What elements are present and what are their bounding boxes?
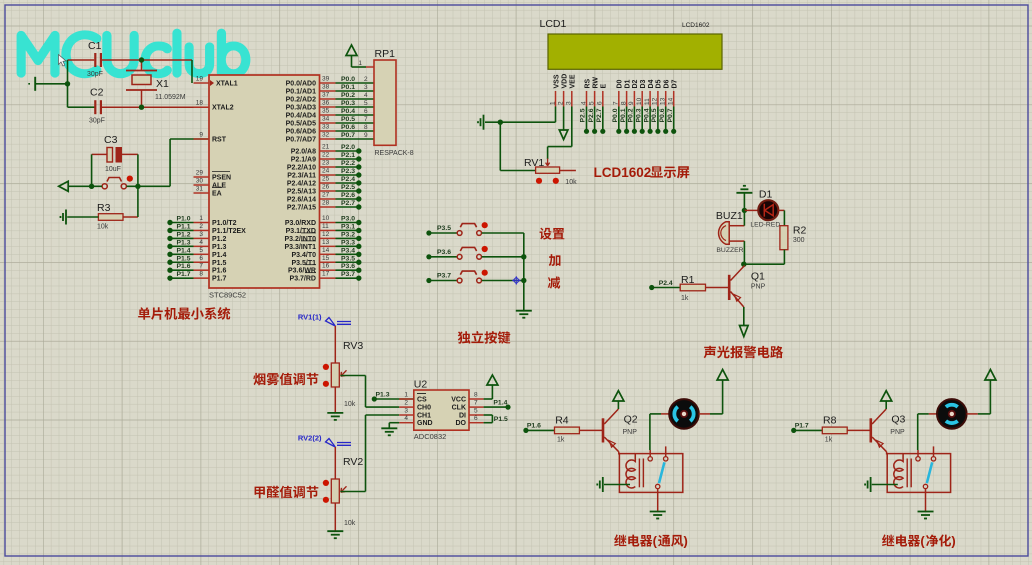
wire LCD net P2.5 — [586, 107, 588, 132]
node P1.6 — [523, 428, 528, 433]
pin P2.0 — [320, 150, 336, 152]
wire net P3.7 — [336, 277, 359, 279]
svg-text:(: ( — [920, 534, 925, 549]
mouse cursor — [59, 55, 67, 67]
wire LCD VSS to ground — [555, 107, 557, 123]
svg-text:26: 26 — [322, 184, 330, 191]
pin CLK — [469, 406, 484, 408]
node P1.3 — [372, 396, 377, 401]
svg-text:P3.7: P3.7 — [437, 273, 451, 280]
svg-text:4: 4 — [580, 101, 587, 105]
svg-text:11.0592M: 11.0592M — [155, 94, 186, 101]
wire net P2.5 — [336, 190, 359, 192]
svg-text:LED-RED: LED-RED — [750, 222, 780, 229]
wire LCD net P0.2 — [633, 107, 635, 132]
buzzer BUZ1 — [719, 222, 730, 245]
RV2 adjust dots — [323, 480, 329, 486]
resistor R3 — [98, 214, 123, 221]
LED D1 — [744, 209, 758, 211]
svg-text:P2.5: P2.5 — [580, 108, 587, 122]
power arrow down Q1 — [740, 326, 749, 337]
svg-text:P1.0/T2: P1.0/T2 — [212, 220, 237, 227]
wire net P1.4 — [170, 253, 194, 255]
ADC U2 body — [414, 390, 469, 430]
wire LCD net P0.0 — [618, 107, 620, 132]
pin CH1 — [399, 414, 414, 416]
svg-text:11: 11 — [322, 223, 329, 230]
pin P3.2 — [320, 237, 336, 239]
pin P1.6 — [194, 269, 210, 271]
svg-text:D7: D7 — [672, 79, 679, 88]
wire left rail — [68, 59, 95, 61]
svg-text:P1.6: P1.6 — [527, 423, 541, 430]
svg-text:VEE: VEE — [570, 74, 577, 88]
node LCD net P0.7 — [671, 129, 676, 134]
svg-text:4: 4 — [404, 415, 408, 422]
wire GND — [389, 422, 399, 424]
svg-text:P2.4: P2.4 — [659, 280, 673, 287]
svg-text:2: 2 — [404, 400, 408, 407]
wire C3 loop — [92, 153, 107, 155]
wire coil left ground — [604, 484, 630, 486]
svg-text:27: 27 — [322, 192, 330, 199]
svg-text:7: 7 — [364, 116, 368, 123]
svg-text:14: 14 — [668, 97, 675, 105]
svg-text:PNP: PNP — [623, 429, 638, 436]
svg-text:10k: 10k — [344, 401, 356, 408]
svg-text:RV1: RV1 — [524, 157, 544, 169]
pin PSEN — [194, 176, 210, 178]
node P1.6 — [167, 268, 172, 273]
wire LCD net P0.3 — [641, 107, 643, 132]
svg-text:D3: D3 — [640, 79, 647, 88]
node P2.6 — [356, 196, 361, 201]
wire Q1 emitter down — [743, 307, 745, 326]
wire P0.6 to RP1 — [336, 130, 375, 132]
relay coil — [626, 454, 635, 488]
svg-text:P1.4: P1.4 — [493, 400, 507, 407]
node X1 top — [139, 57, 144, 62]
pin P1.1 — [194, 229, 210, 231]
svg-text:14: 14 — [322, 247, 330, 254]
svg-text:LCD1: LCD1 — [540, 18, 567, 30]
node P3.2 — [356, 236, 361, 241]
svg-text:D1: D1 — [624, 79, 631, 88]
svg-text:38: 38 — [322, 84, 330, 91]
relay RL (继电器(净化)) — [887, 454, 950, 493]
svg-text:P0.7/AD7: P0.7/AD7 — [286, 137, 316, 144]
svg-text:P3.7: P3.7 — [341, 271, 355, 278]
node P2.7 — [356, 204, 361, 209]
pin VCC — [469, 398, 484, 400]
power arrow Q3 collector — [885, 401, 887, 409]
svg-text:1k: 1k — [681, 295, 689, 302]
node P1.7 — [791, 428, 796, 433]
svg-text:P1.6: P1.6 — [177, 263, 191, 270]
node rail P3.6 — [521, 254, 526, 259]
pin P2.6 — [320, 198, 336, 200]
svg-text:P1.1/T2EX: P1.1/T2EX — [212, 228, 246, 235]
wire button ground rail — [523, 233, 525, 311]
svg-text:P2.7/A15: P2.7/A15 — [287, 205, 316, 212]
svg-text:P0.0: P0.0 — [612, 108, 619, 122]
resistor R2 — [780, 226, 788, 250]
svg-text:ADC0832: ADC0832 — [414, 432, 447, 441]
svg-text:10k: 10k — [97, 224, 109, 231]
pin P3.6 — [320, 269, 336, 271]
button indicator red dot — [127, 176, 133, 182]
wire relay NO stub — [933, 446, 935, 456]
svg-text:P2.4: P2.4 — [341, 176, 355, 183]
svg-text:D2: D2 — [632, 79, 639, 88]
wire P0.2 to RP1 — [336, 98, 375, 100]
capacitor C1 — [94, 53, 96, 67]
svg-text:BUZ1: BUZ1 — [716, 210, 743, 222]
node LCD net P0.5 — [655, 129, 660, 134]
svg-text:35: 35 — [322, 108, 330, 115]
node P2.2 — [356, 164, 361, 169]
svg-text:D0: D0 — [617, 79, 624, 88]
svg-text:P3.6: P3.6 — [341, 263, 355, 270]
svg-text:1: 1 — [199, 215, 203, 222]
svg-text:P2.7: P2.7 — [341, 200, 355, 207]
wire relay common to motor — [917, 450, 919, 457]
wire RV2 bottom — [334, 503, 336, 531]
wire net P1.7 — [170, 277, 194, 279]
wire net P2.2 — [336, 166, 359, 168]
node LCD net P0.2 — [632, 129, 637, 134]
svg-text:13: 13 — [322, 239, 330, 246]
svg-text:3: 3 — [199, 231, 203, 238]
svg-text:6: 6 — [474, 415, 478, 422]
svg-text:E: E — [601, 84, 608, 89]
reset button — [107, 178, 122, 182]
wire R3 — [67, 216, 98, 218]
svg-text:13: 13 — [660, 97, 667, 105]
svg-text:P3.2/INT0: P3.2/INT0 — [284, 236, 316, 243]
node P1.0 — [167, 220, 172, 225]
svg-text:D5: D5 — [656, 79, 663, 88]
selection marker — [512, 276, 520, 284]
pin P1.4 — [194, 253, 210, 255]
resistor R1 — [653, 287, 680, 289]
wire VDD power — [563, 107, 565, 131]
wire relay pole to ground — [925, 489, 927, 512]
pin P0.7 — [320, 138, 336, 140]
svg-text:R3: R3 — [97, 202, 111, 214]
svg-text:P2.1: P2.1 — [341, 152, 355, 159]
label 设置 — [540, 228, 565, 240]
svg-text:EA: EA — [212, 191, 222, 198]
ground buttons — [516, 310, 532, 312]
svg-text:RV1(1): RV1(1) — [298, 313, 322, 322]
pin P2.1 — [320, 158, 336, 160]
pin P2.3 — [320, 174, 336, 176]
svg-text:P0.6/AD6: P0.6/AD6 — [286, 129, 316, 136]
svg-text:P2.6/A14: P2.6/A14 — [287, 197, 316, 204]
pin P3.4 — [320, 253, 336, 255]
push button K1 — [431, 232, 457, 234]
node P1.1 — [167, 228, 172, 233]
node button P3.7 — [426, 278, 431, 283]
svg-text:7: 7 — [199, 263, 203, 270]
svg-text:(: ( — [653, 534, 658, 549]
pin P0.3 — [320, 106, 336, 108]
wire button K3 to rail — [482, 280, 524, 282]
svg-text:36: 36 — [322, 100, 330, 107]
svg-text:P1.6: P1.6 — [212, 268, 227, 275]
pin P3.0 — [320, 222, 336, 224]
svg-text:P0.3: P0.3 — [341, 100, 355, 107]
wire C2 to XTAL2 — [82, 106, 95, 108]
svg-text:9: 9 — [628, 101, 635, 105]
svg-text:17: 17 — [322, 271, 330, 278]
wire CLK net P1.4 — [484, 406, 508, 408]
svg-text:P0.2/AD2: P0.2/AD2 — [286, 97, 316, 104]
svg-text:7: 7 — [613, 101, 620, 105]
resistor R8 — [795, 429, 823, 431]
node P2.4 — [649, 285, 654, 290]
node P1.2 — [167, 236, 172, 241]
svg-text:P2.0: P2.0 — [341, 144, 355, 151]
svg-text:P2.5: P2.5 — [341, 184, 355, 191]
svg-text:33: 33 — [322, 124, 330, 131]
svg-text:DI: DI — [459, 413, 466, 420]
svg-text:P0.1/AD1: P0.1/AD1 — [286, 89, 316, 96]
motor fan — [669, 399, 699, 429]
wire reset to RST pin — [169, 139, 171, 186]
MCU U1 STC89C52 body — [209, 75, 320, 288]
pin RST — [194, 138, 210, 140]
node button P3.6 — [426, 254, 431, 259]
node emitter rail — [741, 262, 746, 267]
svg-text:VSS: VSS — [553, 74, 560, 88]
node LCD net P0.1 — [624, 129, 629, 134]
wire net P2.0 — [336, 150, 359, 152]
svg-text:P0.5: P0.5 — [651, 108, 658, 122]
svg-text:Q3: Q3 — [891, 414, 905, 426]
node LCD net P0.6 — [663, 129, 668, 134]
svg-text:P3.1/TXD: P3.1/TXD — [286, 228, 316, 235]
svg-text:P3.4: P3.4 — [341, 247, 355, 254]
svg-text:CH1: CH1 — [417, 413, 431, 420]
node P1.4 — [505, 405, 510, 410]
svg-text:DO: DO — [456, 420, 467, 427]
svg-text:1k: 1k — [825, 437, 833, 444]
svg-text:10: 10 — [322, 215, 330, 222]
svg-text:P2.5/A13: P2.5/A13 — [287, 189, 316, 196]
svg-text:P1.2: P1.2 — [212, 236, 227, 243]
svg-text:R2: R2 — [793, 225, 807, 237]
svg-text:RV2(2): RV2(2) — [298, 434, 322, 443]
node LCD net P0.4 — [648, 129, 653, 134]
wire VEE to RV1 wiper — [571, 107, 573, 147]
svg-text:9: 9 — [199, 132, 203, 139]
svg-text:10uF: 10uF — [105, 166, 121, 173]
node P2.0 — [356, 148, 361, 153]
svg-text:1k: 1k — [557, 437, 565, 444]
pin RP1-1 — [366, 66, 374, 68]
wire net P2.3 — [336, 174, 359, 176]
svg-text:P2.2: P2.2 — [341, 160, 355, 167]
ground coil — [870, 477, 872, 492]
wire net P2.6 — [336, 198, 359, 200]
svg-text:P0.5: P0.5 — [341, 116, 355, 123]
pin P1.7 — [194, 277, 210, 279]
wire R4 to base — [579, 429, 603, 431]
node P3.3 — [356, 244, 361, 249]
node LCD net P0.3 — [640, 129, 645, 134]
node P2.4 — [356, 180, 361, 185]
node X1 bottom — [139, 105, 144, 110]
svg-text:4: 4 — [199, 239, 203, 246]
wire LCD net P0.4 — [649, 107, 651, 132]
svg-text:31: 31 — [196, 186, 204, 193]
svg-text:P3.5: P3.5 — [341, 255, 355, 262]
svg-text:8: 8 — [364, 124, 368, 131]
pin P0.4 — [320, 114, 336, 116]
wire net P3.3 — [336, 245, 359, 247]
svg-text:C1: C1 — [88, 40, 102, 52]
node LCD net P2.5 — [584, 129, 589, 134]
pin P0.5 — [320, 122, 336, 124]
wire net P3.5 — [336, 261, 359, 263]
capacitor C3 (10uF) — [107, 148, 113, 163]
node LCD net P2.7 — [600, 129, 605, 134]
svg-text:P0.4/AD4: P0.4/AD4 — [286, 113, 316, 120]
svg-text:C3: C3 — [104, 134, 118, 146]
label 继电器(通风) — [614, 534, 688, 549]
svg-text:P1.5: P1.5 — [177, 255, 191, 262]
wire LCD net P0.1 — [626, 107, 628, 132]
potentiometer RV1 — [499, 122, 501, 170]
wire buzzer terminals — [729, 225, 744, 227]
pin P2.7 — [320, 206, 336, 208]
wire net P1.2 — [170, 237, 194, 239]
svg-text:21: 21 — [322, 144, 330, 151]
node P3.7 — [356, 275, 361, 280]
svg-text:VCC: VCC — [451, 397, 466, 404]
ground R3 left — [65, 210, 67, 225]
pin GND — [399, 422, 414, 424]
svg-text:P0.6: P0.6 — [659, 108, 666, 122]
node P3.4 — [356, 252, 361, 257]
wire P0.4 to RP1 — [336, 114, 375, 116]
crystal X1 — [141, 60, 143, 71]
pin P2.2 — [320, 166, 336, 168]
svg-text:R8: R8 — [823, 415, 837, 427]
svg-text:4: 4 — [364, 92, 368, 99]
svg-text:D4: D4 — [648, 79, 655, 88]
label 减 — [548, 276, 560, 288]
svg-text:P1.4: P1.4 — [212, 252, 227, 259]
svg-text:5: 5 — [364, 100, 368, 107]
svg-text:11: 11 — [644, 98, 651, 105]
svg-text:P2.0/A8: P2.0/A8 — [291, 149, 316, 156]
svg-text:CH0: CH0 — [417, 405, 431, 412]
svg-text:8: 8 — [474, 392, 478, 399]
pin CH0 — [399, 406, 414, 408]
MCUclub watermark logo — [20, 32, 247, 75]
svg-text:P0.2: P0.2 — [341, 92, 355, 99]
power arrow Q2 collector — [617, 401, 619, 409]
wire motor to power — [967, 413, 978, 415]
svg-text:XTAL2: XTAL2 — [212, 105, 234, 112]
svg-text:P1.1: P1.1 — [177, 223, 191, 230]
svg-text:P0.6: P0.6 — [341, 124, 355, 131]
pin P0.1 — [320, 90, 336, 92]
label 继电器(净化) — [882, 534, 956, 549]
wire net P3.2 — [336, 237, 359, 239]
svg-text:P1.3: P1.3 — [376, 392, 390, 399]
svg-text:18: 18 — [196, 100, 204, 107]
node P1.3 — [167, 244, 172, 249]
wire LCD net P0.7 — [673, 107, 675, 132]
svg-text:29: 29 — [196, 170, 204, 177]
svg-text:P1.5: P1.5 — [494, 416, 508, 423]
power symbol alarm — [736, 192, 752, 194]
pin P1.2 — [194, 237, 210, 239]
svg-text:P3.7/RD: P3.7/RD — [290, 276, 316, 283]
transistor Q2 — [602, 418, 605, 442]
wire reset row — [69, 185, 103, 187]
svg-text:28: 28 — [322, 200, 330, 207]
push button K2 — [431, 256, 457, 258]
ground RV3 — [327, 412, 343, 414]
svg-text:3: 3 — [364, 84, 368, 91]
RV1 adjust dots — [536, 178, 542, 184]
svg-text:STC89C52: STC89C52 — [209, 291, 246, 300]
pin P2.5 — [320, 190, 336, 192]
svg-text:P3.2: P3.2 — [341, 231, 355, 238]
potentiometer RV2 — [334, 447, 336, 479]
svg-text:10k: 10k — [565, 179, 577, 186]
wire RP1 VCC — [352, 66, 367, 68]
power arrow motor — [717, 370, 728, 381]
svg-text:P0.7: P0.7 — [341, 132, 355, 139]
label 烟雾值调节 — [253, 373, 318, 386]
pin P0.0 — [320, 82, 336, 84]
wire VCC power — [484, 398, 493, 400]
push button K3 — [431, 280, 457, 282]
wire C1 to XTAL1 — [102, 59, 192, 61]
resistor pack RP1 — [374, 60, 396, 145]
svg-text:RESPACK-8: RESPACK-8 — [375, 150, 414, 157]
svg-text:CS: CS — [417, 397, 427, 404]
svg-text:5: 5 — [588, 101, 595, 105]
svg-text:): ) — [951, 534, 955, 549]
wire net P3.1 — [336, 229, 359, 231]
ground coil — [602, 477, 604, 492]
svg-text:10k: 10k — [344, 520, 356, 527]
svg-text:P0.1: P0.1 — [341, 84, 355, 91]
svg-text:300: 300 — [793, 237, 805, 244]
svg-text:P1.7: P1.7 — [795, 423, 809, 430]
svg-text:5: 5 — [199, 247, 203, 254]
wire RV2 wiper to CH1 — [341, 491, 366, 493]
svg-text:1: 1 — [549, 101, 556, 105]
pin CS — [399, 398, 414, 400]
svg-text:P1.5: P1.5 — [212, 260, 227, 267]
wire RV3 wiper to CH0 — [341, 375, 366, 377]
wire relay pole to ground — [657, 489, 659, 512]
ground RV2 — [327, 530, 343, 532]
wire net P3.4 — [336, 253, 359, 255]
svg-text:RS: RS — [584, 78, 591, 88]
capacitor C2 — [94, 100, 96, 114]
svg-text:P2.1/A9: P2.1/A9 — [291, 157, 316, 164]
pin DI — [469, 414, 484, 416]
